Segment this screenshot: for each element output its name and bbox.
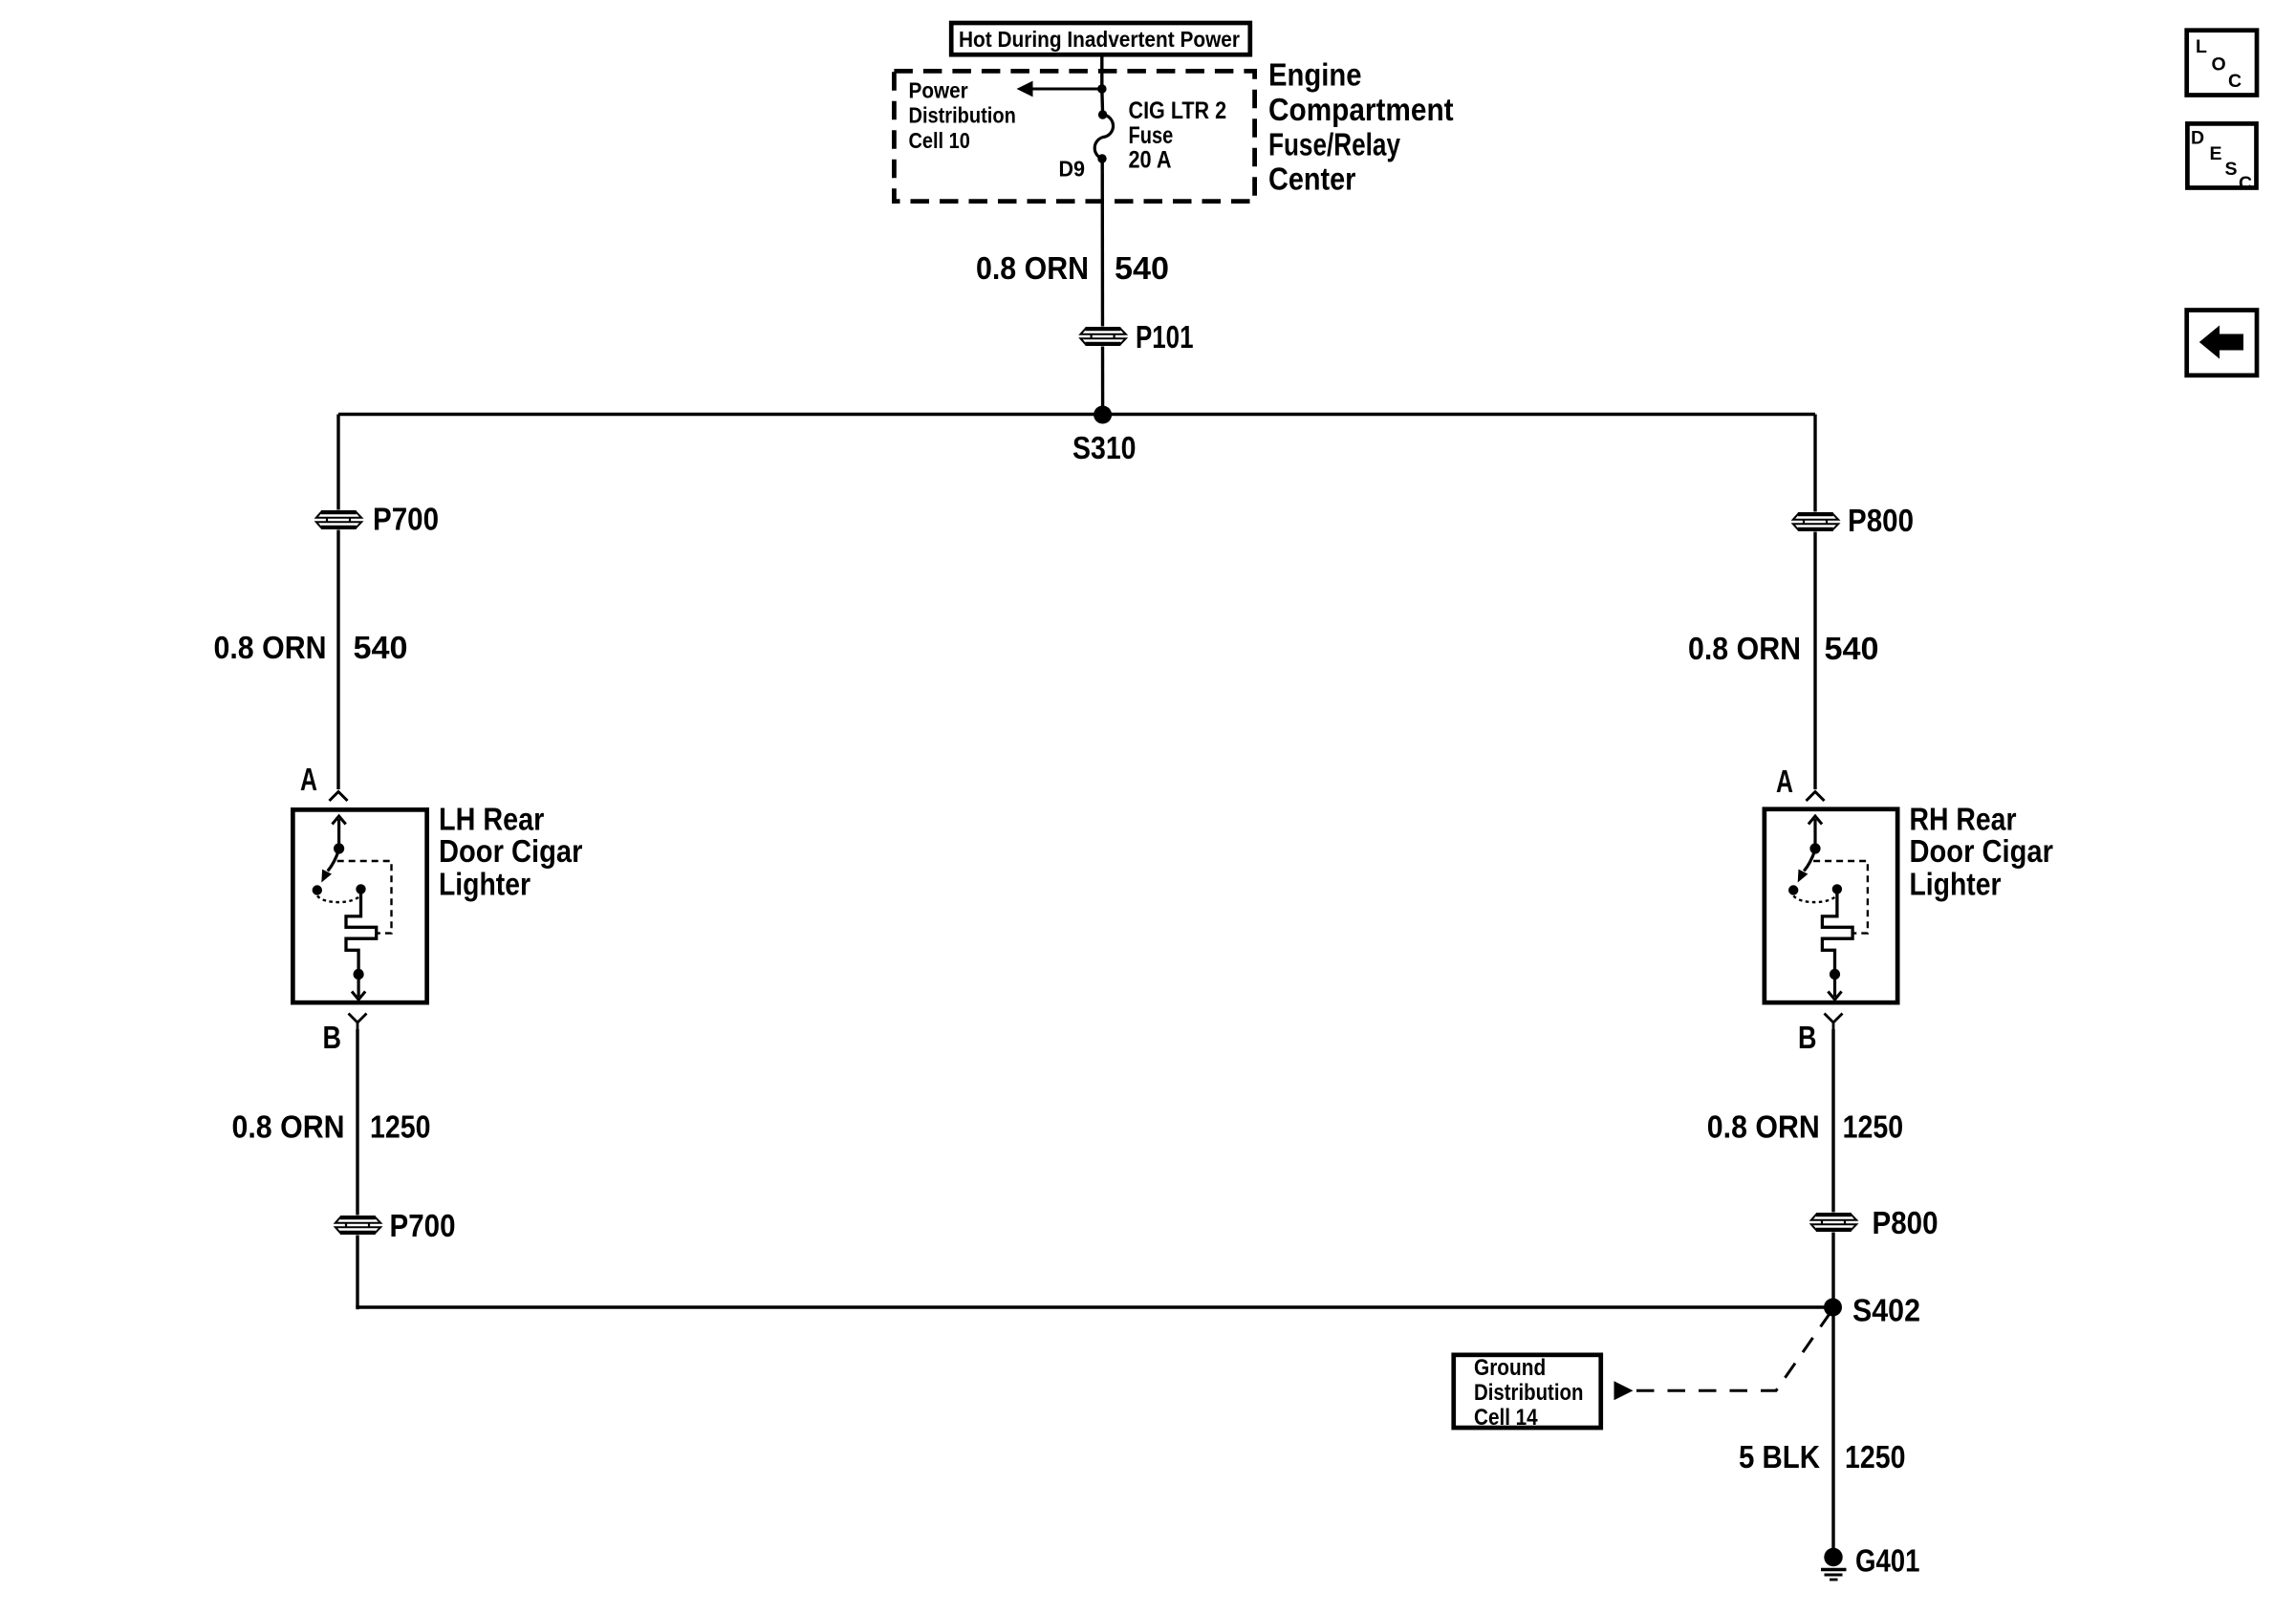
svg-text:1250: 1250 — [370, 1109, 431, 1145]
node: switch pivot — [1809, 843, 1820, 853]
svg-text:CIG LTR 2: CIG LTR 2 — [1129, 97, 1227, 124]
back arrow icon box — [2187, 311, 2257, 376]
dashed contact arc — [317, 895, 361, 903]
svg-text:540: 540 — [1825, 631, 1879, 666]
node: element contact — [1832, 884, 1842, 893]
svg-text:A: A — [300, 762, 317, 797]
connector P700 (upper) — [314, 502, 439, 537]
wire pin B down through S402 to G401 — [1831, 1029, 1834, 1557]
svg-text:Ground: Ground — [1474, 1355, 1546, 1381]
heating element resistor — [1822, 893, 1852, 970]
node: power distribution tap junction — [1097, 84, 1107, 94]
wire arrow to power distribution — [1017, 81, 1102, 97]
exit arrow to pin B — [357, 975, 360, 998]
svg-text:0.8 ORN: 0.8 ORN — [232, 1109, 345, 1145]
svg-text:D9: D9 — [1059, 157, 1086, 182]
heating element resistor — [346, 893, 377, 970]
label 5 BLK 1250 — [1739, 1439, 1906, 1474]
LH Rear Door Cigar Lighter box — [292, 809, 426, 1002]
wire LH pin B down — [356, 1029, 358, 1307]
fuse block dashed box: Engine Compartment Fuse/Relay Center — [894, 71, 1254, 201]
svg-text:L: L — [2196, 36, 2207, 57]
ground distribution reference box — [1454, 1355, 1601, 1431]
wire ground bus to S402 — [357, 1305, 1833, 1308]
exit arrow to pin B — [1833, 975, 1836, 998]
node: element bottom — [1830, 969, 1840, 979]
LH lighter internals — [313, 816, 392, 1000]
wire corner joint — [356, 1305, 358, 1309]
svg-text:B: B — [323, 1020, 342, 1055]
svg-text:Door Cigar: Door Cigar — [1910, 833, 2054, 869]
svg-text:Center: Center — [1268, 161, 1356, 197]
switch arm arc — [1804, 850, 1815, 872]
svg-text:20 A: 20 A — [1129, 147, 1172, 174]
svg-text:0.8 ORN: 0.8 ORN — [976, 250, 1089, 286]
svg-text:Engine: Engine — [1268, 57, 1362, 93]
svg-text:S: S — [2225, 159, 2238, 180]
svg-text:P101: P101 — [1136, 319, 1194, 355]
svg-text:Lighter: Lighter — [439, 867, 531, 902]
RH lighter internals — [1788, 816, 1868, 1000]
svg-text:E: E — [2210, 143, 2222, 164]
node: left contact — [1788, 885, 1798, 894]
DESC icon box — [2187, 123, 2256, 194]
label CIG LTR 2 Fuse 20 A — [1129, 97, 1227, 174]
svg-text:Cell 14: Cell 14 — [1474, 1405, 1538, 1431]
svg-text:LH Rear: LH Rear — [439, 802, 544, 837]
wire left branch down to LH pin A — [336, 415, 339, 790]
svg-text:A: A — [1776, 764, 1793, 799]
svg-text:P800: P800 — [1873, 1205, 1939, 1240]
pin B chevron (left) — [349, 1014, 367, 1030]
label RH Rear Door Cigar Lighter — [1910, 802, 2054, 902]
svg-text:Hot During Inadvertent Power: Hot During Inadvertent Power — [959, 27, 1240, 52]
fuse CIG LTR 2 20A — [1094, 110, 1113, 162]
splice S310 — [1072, 406, 1137, 466]
svg-text:B: B — [1798, 1020, 1817, 1055]
LOC icon box — [2187, 31, 2257, 96]
dashed element outline — [1813, 861, 1868, 934]
svg-text:Compartment: Compartment — [1268, 92, 1454, 127]
svg-text:540: 540 — [1115, 250, 1169, 286]
label 0.8 ORN 1250 (left lower) — [232, 1109, 431, 1145]
svg-text:C: C — [2228, 71, 2242, 92]
connector P800 (lower) — [1809, 1205, 1939, 1240]
svg-text:P700: P700 — [390, 1208, 456, 1243]
svg-text:S402: S402 — [1852, 1293, 1920, 1328]
wire bus from S310 (horizontal) — [338, 413, 1815, 416]
svg-text:P700: P700 — [373, 502, 439, 537]
svg-text:0.8 ORN: 0.8 ORN — [214, 630, 327, 665]
svg-text:Cell 10: Cell 10 — [909, 128, 970, 153]
svg-text:5 BLK: 5 BLK — [1739, 1439, 1820, 1474]
label 0.8 ORN 1250 (right lower) — [1707, 1109, 1903, 1145]
label LH Rear Door Cigar Lighter — [439, 802, 583, 902]
wire fuse to S310 bus — [1100, 159, 1104, 415]
entry arrow from pin A — [337, 819, 340, 849]
label 0.8 ORN 540 (left) — [214, 630, 408, 665]
svg-text:Fuse/Relay: Fuse/Relay — [1268, 127, 1401, 162]
svg-text:Door Cigar: Door Cigar — [439, 833, 583, 869]
label 0.8 ORN 540 (top) — [976, 250, 1169, 286]
wire right branch down to RH pin A — [1813, 415, 1816, 790]
node: switch pivot — [334, 843, 344, 853]
svg-text:O: O — [2212, 54, 2226, 75]
svg-text:1250: 1250 — [1843, 1109, 1904, 1145]
svg-text:Fuse: Fuse — [1129, 122, 1174, 149]
entry arrow from pin A — [1813, 819, 1816, 849]
svg-text:Distribution: Distribution — [909, 103, 1016, 128]
connector P101 — [1079, 319, 1194, 355]
svg-text:0.8 ORN: 0.8 ORN — [1688, 631, 1801, 666]
svg-text:Distribution: Distribution — [1474, 1380, 1583, 1406]
pin A chevron (left) — [330, 792, 348, 802]
label Power Distribution Cell 10 — [909, 77, 1016, 153]
hot label box — [951, 23, 1250, 54]
splice S402 — [1824, 1293, 1920, 1328]
node: left contact — [313, 885, 322, 894]
label Engine Compartment Fuse/Relay Center — [1268, 57, 1454, 197]
svg-text:P800: P800 — [1848, 503, 1914, 538]
wire junction to fuse — [1100, 89, 1104, 115]
pin A chevron (right) — [1807, 792, 1825, 802]
switch arm arc — [328, 850, 339, 872]
svg-text:0.8 ORN: 0.8 ORN — [1707, 1109, 1820, 1145]
svg-text:Lighter: Lighter — [1910, 867, 2002, 902]
label 0.8 ORN 540 (right) — [1688, 631, 1879, 666]
svg-text:RH Rear: RH Rear — [1910, 802, 2017, 837]
dashed reference line to S402 — [1636, 1311, 1831, 1390]
node: element bottom — [354, 969, 364, 979]
svg-text:G401: G401 — [1855, 1543, 1920, 1579]
svg-text:S310: S310 — [1072, 430, 1137, 465]
connector P700 (lower) — [334, 1208, 456, 1243]
wire from hot box into fuse block — [1100, 56, 1103, 89]
dashed element outline — [337, 861, 392, 934]
svg-text:540: 540 — [354, 630, 408, 665]
svg-text:C: C — [2239, 173, 2252, 194]
dashed contact arc — [1793, 895, 1837, 903]
connector P800 (upper) — [1791, 503, 1914, 538]
reference arrow — [1614, 1381, 1634, 1400]
svg-text:Power: Power — [909, 77, 968, 102]
node: element contact — [356, 884, 365, 893]
RH Rear Door Cigar Lighter box — [1765, 809, 1897, 1002]
ground G401 — [1821, 1543, 1920, 1581]
svg-text:1250: 1250 — [1845, 1439, 1906, 1474]
pin B chevron (right) — [1825, 1014, 1843, 1030]
svg-text:D: D — [2191, 128, 2204, 149]
